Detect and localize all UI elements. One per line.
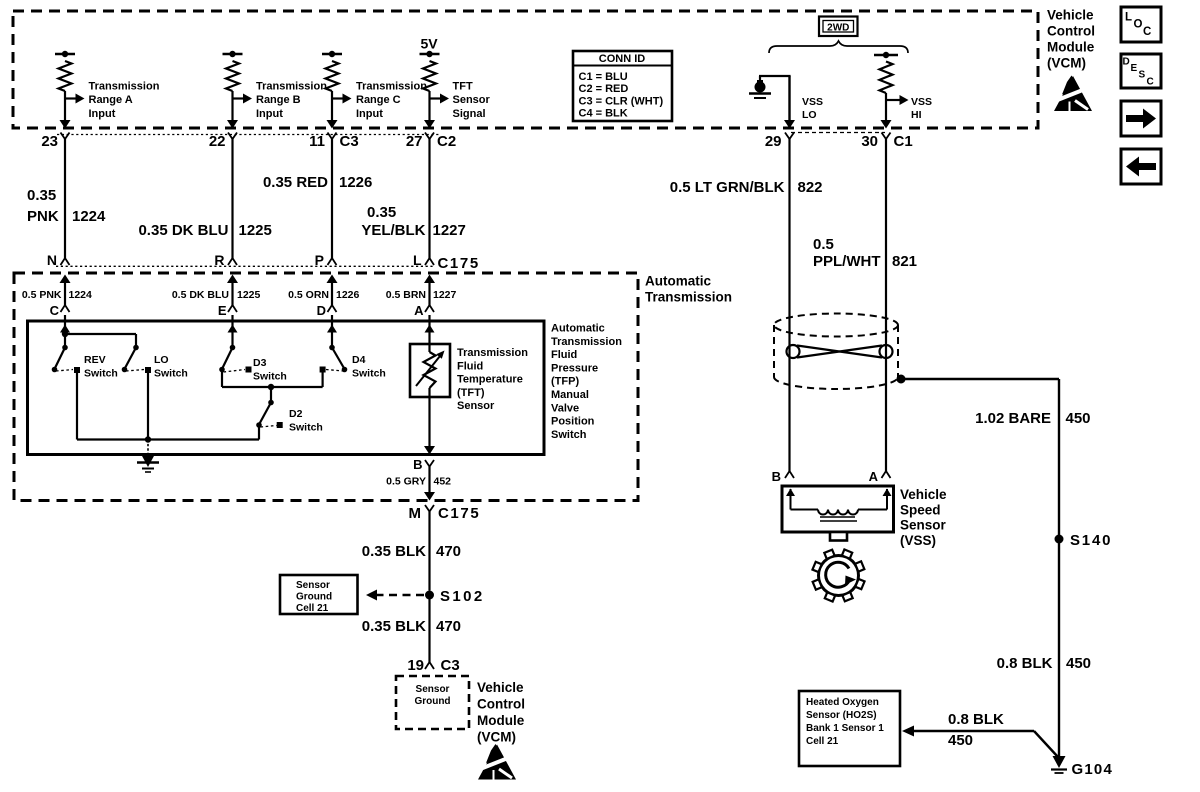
svg-text:N: N: [47, 252, 57, 268]
wire D3 contact down and across to D4 contact: [221, 370, 223, 388]
switch D3 contact square: [246, 367, 252, 373]
svg-text:C1 = BLU: C1 = BLU: [579, 71, 628, 83]
svg-text:Speed: Speed: [900, 502, 941, 517]
switch REV blade: [55, 348, 66, 370]
svg-text:Sensor: Sensor: [296, 580, 330, 591]
wire REV contact to bus: [76, 371, 78, 440]
svg-text:C: C: [50, 303, 60, 318]
svg-text:D2: D2: [289, 408, 303, 420]
switch D2 blade: [259, 403, 271, 425]
connector C175 terminal R: fork: [228, 258, 237, 265]
svg-text:Module: Module: [1047, 40, 1095, 55]
svg-text:Vehicle: Vehicle: [900, 487, 947, 502]
shielded twisted pair: dashed shield cylinder: [774, 314, 898, 390]
Sensor Ground dashed box (VCM): [396, 676, 469, 729]
svg-text:Control: Control: [1047, 24, 1095, 39]
switch D4: pivot: [329, 345, 335, 351]
svg-text:Sensor: Sensor: [900, 518, 947, 533]
wire D2 contact to bottom bus: [258, 425, 260, 440]
wire into transmission pin A: [428, 283, 430, 306]
signal tap arrow Transmission Range C Input: [332, 97, 343, 99]
svg-text:C175: C175: [438, 255, 480, 272]
male pin arrow below C175 terminal R: [227, 275, 238, 284]
svg-text:0.35: 0.35: [27, 187, 56, 204]
svg-text:0.8 BLK: 0.8 BLK: [997, 655, 1053, 672]
twisted pair crossing symbol: [787, 345, 893, 358]
svg-text:19: 19: [407, 657, 424, 674]
wire inside box from pin D: [331, 315, 333, 348]
svg-text:(TFT): (TFT): [457, 387, 485, 399]
svg-text:470: 470: [436, 618, 461, 635]
svg-text:Sensor: Sensor: [457, 400, 495, 412]
VSS internal pickup coil: [791, 489, 888, 521]
svg-text:B: B: [413, 457, 422, 472]
male pin arrow at VCM pin 27: [424, 120, 435, 129]
female terminal fork at pin 23: [61, 133, 70, 140]
svg-text:(VSS): (VSS): [900, 533, 936, 548]
node: rail bar above VSS HI resistor: [874, 54, 898, 56]
svg-text:450: 450: [948, 732, 973, 749]
svg-text:0.35 BLK: 0.35 BLK: [362, 618, 426, 635]
svg-text:Transmission: Transmission: [551, 336, 622, 348]
svg-text:D: D: [317, 303, 326, 318]
resistor R-B (Transmission Range B pull-up): [226, 61, 239, 91]
transmission pin fork D: [328, 305, 337, 312]
svg-text:S140: S140: [1070, 532, 1112, 549]
arrow up toward pin D: [327, 325, 337, 333]
transmission pin fork A: [425, 305, 434, 312]
svg-text:Range C: Range C: [356, 94, 401, 106]
signal tap arrow VSS HI: [886, 99, 900, 101]
svg-text:C: C: [1143, 26, 1151, 38]
VCM pin 19 fork: [425, 662, 434, 669]
svg-text:CONN ID: CONN ID: [599, 53, 646, 65]
pin fork B: [425, 460, 434, 467]
svg-text:30: 30: [861, 133, 878, 150]
male pin arrow at VCM pin 22: [227, 120, 238, 129]
svg-text:Range B: Range B: [256, 94, 301, 106]
Automatic Transmission dashed boundary box: [14, 273, 638, 501]
svg-text:Fluid: Fluid: [551, 349, 577, 361]
svg-text:A: A: [414, 303, 424, 318]
svg-text:M: M: [409, 505, 422, 522]
svg-text:0.35 BLK: 0.35 BLK: [362, 543, 426, 560]
svg-text:PNK: PNK: [27, 208, 59, 225]
transmission pin fork C: [61, 305, 70, 312]
svg-text:Ground: Ground: [414, 696, 450, 707]
svg-text:Range A: Range A: [89, 94, 133, 106]
male pin arrow at VCM pin 11: [327, 120, 338, 129]
svg-text:C: C: [1147, 77, 1154, 88]
svg-text:Automatic: Automatic: [551, 323, 605, 335]
switch D3 blade: [222, 348, 233, 370]
switch D2 dotted actuator link: [261, 426, 277, 428]
switch REV dotted actuator link: [56, 370, 73, 372]
svg-text:C175: C175: [438, 505, 480, 522]
wire 0.35 DK BLU 1225 (VCM to C175): [231, 139, 233, 258]
svg-text:C1: C1: [894, 133, 913, 150]
Heated Oxygen Sensor reference box: [799, 691, 900, 766]
arrow into HO2S box: [902, 726, 914, 737]
CONN ID table box: [573, 51, 672, 121]
splice S140: [1055, 535, 1064, 544]
svg-text:Vehicle: Vehicle: [1047, 8, 1094, 23]
svg-text:1225: 1225: [237, 289, 261, 301]
svg-text:27: 27: [406, 133, 423, 150]
svg-text:PPL/WHT: PPL/WHT: [813, 253, 881, 270]
svg-text:Transmission: Transmission: [89, 81, 160, 93]
svg-text:Switch: Switch: [154, 368, 188, 380]
svg-text:A: A: [869, 469, 879, 484]
svg-text:Fluid: Fluid: [457, 360, 483, 372]
wire 0.35 BLK 470 (upper): [428, 512, 430, 591]
Vehicle Speed Sensor box: [782, 486, 894, 532]
svg-text:S102: S102: [440, 588, 485, 605]
thermistor diagonal arrow: [416, 356, 440, 386]
wire from resistor R-A to VCM pin 23: [64, 91, 66, 123]
resistor R-D (TFT Sensor pull-up): [423, 61, 436, 91]
svg-text:C2: C2: [437, 133, 456, 150]
male pin arrow at transmission box exit: [424, 492, 435, 501]
svg-text:TFT: TFT: [453, 81, 473, 93]
svg-text:0.5 BRN: 0.5 BRN: [386, 289, 426, 301]
svg-text:D3: D3: [253, 357, 267, 369]
svg-text:1224: 1224: [72, 208, 106, 225]
signal tap arrow Transmission Range A Input: [65, 97, 76, 99]
svg-text:C3: C3: [441, 657, 460, 674]
female terminal fork pin 30: [882, 133, 891, 140]
svg-text:Switch: Switch: [289, 422, 323, 434]
wire inside box from pin C: [64, 315, 66, 348]
svg-text:Switch: Switch: [551, 429, 587, 441]
female terminal fork at pin 11: [328, 133, 337, 140]
wire into transmission pin E: [231, 283, 233, 306]
switch LO blade: [125, 348, 137, 370]
svg-text:Input: Input: [89, 108, 116, 120]
junction node to D2: [268, 384, 274, 390]
svg-text:C2 = RED: C2 = RED: [579, 83, 629, 95]
wire inside box from pin E: [231, 315, 233, 348]
wire bus to case ground: [147, 440, 149, 457]
junction node LO/bus: [145, 436, 151, 442]
svg-text:YEL/BLK: YEL/BLK: [361, 222, 425, 239]
svg-text:Switch: Switch: [84, 368, 118, 380]
switch LO: pivot: [133, 345, 139, 351]
svg-text:Transmission: Transmission: [457, 347, 528, 359]
brace under 2WD: [769, 41, 908, 53]
wire into transmission pin C: [64, 283, 66, 306]
arrow up toward pin A: [425, 325, 435, 333]
male pin arrow below C175 terminal L: [424, 275, 435, 284]
svg-text:0.5 PNK: 0.5 PNK: [22, 289, 62, 301]
thermistor zigzag (TFT sensor element): [428, 344, 430, 352]
svg-text:Position: Position: [551, 416, 595, 428]
svg-text:1226: 1226: [336, 289, 360, 301]
wire 0.8 BLK 450 to HO2S: [914, 730, 1034, 732]
svg-text:1227: 1227: [433, 289, 457, 301]
wire TFT sensor to pin B: [428, 397, 430, 454]
C175 connector dotted line: [56, 265, 434, 267]
switch LO contact square: [145, 367, 151, 373]
svg-text:S: S: [1139, 70, 1146, 81]
svg-text:Signal: Signal: [453, 108, 486, 120]
svg-text:Transmission: Transmission: [356, 81, 427, 93]
svg-text:22: 22: [209, 133, 226, 150]
svg-text:L: L: [413, 252, 422, 268]
svg-text:0.8 BLK: 0.8 BLK: [948, 711, 1004, 728]
svg-text:Ground: Ground: [296, 592, 332, 603]
svg-text:Cell 21: Cell 21: [296, 603, 329, 614]
svg-text:0.5 LT GRN/BLK: 0.5 LT GRN/BLK: [670, 179, 785, 196]
node: supply rail bar above resistor R-C: [322, 53, 342, 55]
female terminal fork at pin 22: [228, 133, 237, 140]
Sensor Ground Cell 21 reference box: [280, 575, 358, 614]
connector C175 terminal P: fork: [328, 258, 337, 265]
svg-text:D: D: [1123, 57, 1130, 68]
VCM bottom connector dotted line (left bank): [57, 134, 440, 136]
connector C175 terminal L: fork: [425, 258, 434, 265]
svg-text:Manual: Manual: [551, 389, 589, 401]
svg-text:0.5: 0.5: [813, 236, 834, 253]
splice S102: [425, 591, 434, 600]
wire from resistor R-C to VCM pin 11: [331, 91, 333, 123]
svg-text:29: 29: [765, 133, 782, 150]
node: supply rail bar above resistor R-B: [223, 53, 243, 55]
option label box 2WD: [819, 17, 858, 37]
svg-text:Transmission: Transmission: [645, 290, 732, 305]
signal tap arrow TFT Sensor Signal: [430, 97, 441, 99]
switch D2 contact square: [277, 422, 283, 428]
resistor VSS HI pull-up: [880, 62, 893, 94]
svg-text:C3 = CLR (WHT): C3 = CLR (WHT): [579, 95, 664, 107]
wire 0.5 GRY 452: [428, 467, 430, 494]
wire 0.35 RED 1226 (VCM to C175): [331, 139, 333, 258]
svg-text:0.5 GRY: 0.5 GRY: [386, 476, 426, 488]
button next (right arrow): [1121, 101, 1161, 136]
signal tap arrow Transmission Range B Input: [233, 97, 244, 99]
svg-text:VSS: VSS: [911, 96, 932, 108]
svg-text:821: 821: [892, 253, 917, 270]
svg-text:D4: D4: [352, 354, 366, 366]
svg-text:Sensor: Sensor: [453, 94, 491, 106]
svg-text:Sensor (HO2S): Sensor (HO2S): [806, 710, 877, 721]
wire down to D2 switch: [270, 387, 272, 403]
switch D4 contact square: [320, 367, 326, 373]
svg-text:1225: 1225: [239, 222, 272, 239]
node: supply rail bar above resistor R-D: [420, 53, 440, 55]
svg-text:Bank 1 Sensor 1: Bank 1 Sensor 1: [806, 723, 884, 734]
svg-text:Temperature: Temperature: [457, 374, 523, 386]
male pin arrow at pin 29: [784, 120, 795, 129]
male pin arrow at pin 30: [881, 120, 892, 129]
VCM module dashed boundary box: [13, 11, 1038, 128]
switch D3: pivot: [230, 345, 236, 351]
svg-text:Automatic: Automatic: [645, 274, 711, 289]
TFT sensor box: [410, 344, 450, 397]
svg-text:450: 450: [1066, 655, 1091, 672]
node: supply rail bar above resistor R-A: [55, 53, 75, 55]
arrow up toward pin C: [60, 325, 70, 333]
wire 0.5 PPL/WHT 821: [885, 139, 887, 471]
female terminal fork pin 29: [785, 133, 794, 140]
wire resistor to pin 30: [885, 93, 887, 123]
VCM bottom connector dashed line (right bank): [791, 132, 885, 134]
svg-text:822: 822: [798, 179, 823, 196]
arrow down at box bottom edge: [424, 446, 435, 455]
shield drain junction node: [897, 375, 906, 384]
transmission pin fork E: [228, 305, 237, 312]
svg-text:Heated Oxygen: Heated Oxygen: [806, 697, 879, 708]
svg-text:E: E: [218, 303, 227, 318]
junction node at REV branch: [62, 331, 68, 337]
svg-text:450: 450: [1066, 410, 1091, 427]
svg-text:(VCM): (VCM): [1047, 56, 1086, 71]
svg-text:(VCM): (VCM): [477, 730, 516, 745]
svg-text:REV: REV: [84, 354, 106, 366]
svg-text:LO: LO: [154, 354, 169, 366]
female terminal fork at pin 27: [425, 133, 434, 140]
wire from resistor R-B to VCM pin 22: [231, 91, 233, 123]
svg-text:E: E: [1131, 63, 1138, 74]
switch D3 dotted actuator link: [224, 370, 246, 373]
switch LO dotted actuator link: [126, 370, 144, 372]
svg-text:1226: 1226: [339, 174, 372, 191]
wire from resistor R-D to VCM pin 27: [428, 91, 430, 123]
svg-text:Transmission: Transmission: [256, 81, 327, 93]
svg-text:LO: LO: [802, 109, 817, 121]
svg-text:0.35 DK BLU: 0.35 DK BLU: [138, 222, 228, 239]
connector C175 terminal M fork: [425, 505, 434, 512]
transmission case ground symbol: [137, 455, 159, 472]
resistor R-C (Transmission Range C pull-up): [326, 61, 339, 91]
svg-text:Input: Input: [356, 108, 383, 120]
bottom bus wire: [77, 438, 259, 440]
svg-text:5V: 5V: [421, 36, 439, 52]
svg-text:Vehicle: Vehicle: [477, 680, 524, 695]
svg-text:23: 23: [41, 133, 58, 150]
switch D4 blade: [332, 348, 345, 370]
svg-text:Cell 21: Cell 21: [806, 736, 839, 747]
svg-text:Valve: Valve: [551, 402, 579, 414]
svg-text:C3: C3: [340, 133, 359, 150]
wire inside box from pin A: [428, 315, 430, 344]
svg-text:470: 470: [436, 543, 461, 560]
svg-text:Sensor: Sensor: [416, 684, 450, 695]
svg-text:1227: 1227: [433, 222, 466, 239]
ESD sensitive device symbol (top right): [1054, 76, 1092, 112]
svg-text:O: O: [1134, 19, 1143, 31]
dashed reference arrow to Sensor Ground Cell 21: [372, 594, 424, 597]
svg-text:452: 452: [434, 476, 452, 488]
wire 1.02 BARE 450 (drain): [901, 378, 1059, 380]
switch REV: pivot: [62, 345, 68, 351]
switch D4 dotted actuator link: [326, 370, 343, 372]
svg-text:Switch: Switch: [253, 371, 287, 383]
VSS mounting tab: [830, 532, 847, 541]
svg-text:G104: G104: [1072, 761, 1114, 778]
svg-text:HI: HI: [911, 109, 922, 121]
svg-text:0.5 ORN: 0.5 ORN: [288, 289, 329, 301]
connector C175 terminal N: fork: [61, 258, 70, 265]
male pin arrow below C175 terminal N: [60, 275, 71, 284]
svg-text:P: P: [315, 252, 324, 268]
svg-text:Module: Module: [477, 713, 525, 728]
button LOC: [1121, 7, 1161, 42]
button back (left arrow): [1121, 149, 1161, 184]
switch D2: pivot: [268, 400, 274, 406]
svg-text:(TFP): (TFP): [551, 376, 579, 388]
svg-text:Switch: Switch: [352, 368, 386, 380]
svg-text:C4 = BLK: C4 = BLK: [579, 108, 628, 120]
arrow up toward pin E: [228, 325, 238, 333]
resistor R-A (Transmission Range A pull-up): [59, 61, 72, 91]
svg-text:Pressure: Pressure: [551, 362, 598, 374]
wire 0.35 PNK 1224 (VCM to C175): [64, 139, 66, 258]
wire into transmission pin D: [331, 283, 333, 306]
svg-text:B: B: [772, 469, 781, 484]
VSS pin fork B: [785, 471, 794, 478]
male pin arrow at VCM pin 23: [60, 120, 71, 129]
svg-text:L: L: [1125, 12, 1132, 24]
wire 0.35 YEL/BLK 1227 (VCM to C175): [428, 139, 430, 258]
svg-text:1224: 1224: [69, 289, 93, 301]
svg-text:2WD: 2WD: [827, 23, 849, 34]
svg-text:1.02 BARE: 1.02 BARE: [975, 410, 1051, 427]
svg-text:0.35: 0.35: [367, 204, 396, 221]
TFP manual valve position switch solid box: [28, 321, 545, 455]
reluctor gear wheel icon: [812, 549, 864, 601]
ground symbol (VSS LO internal ground): [749, 80, 771, 98]
wire branch C to LO switch: [65, 333, 136, 335]
VSS pin fork A: [882, 471, 891, 478]
wire ground to VSS LO pin 29: [759, 76, 761, 80]
button DESC: [1121, 54, 1161, 88]
svg-text:R: R: [214, 252, 224, 268]
wire LO contact to ground: [147, 371, 149, 440]
svg-text:0.5 DK BLU: 0.5 DK BLU: [172, 289, 229, 301]
svg-text:VSS: VSS: [802, 96, 823, 108]
switch REV contact square: [74, 367, 80, 373]
wire 0.35 BLK 470 (lower): [428, 595, 430, 662]
wire 0.5 LT GRN/BLK 822: [788, 139, 790, 471]
ESD sensitive device symbol (bottom): [478, 744, 516, 780]
svg-text:0.35 RED: 0.35 RED: [263, 174, 328, 191]
svg-text:Input: Input: [256, 108, 283, 120]
svg-text:Control: Control: [477, 697, 525, 712]
svg-text:11: 11: [309, 133, 325, 150]
male pin arrow below C175 terminal P: [327, 275, 338, 284]
ground G104 symbol: [1051, 756, 1067, 773]
